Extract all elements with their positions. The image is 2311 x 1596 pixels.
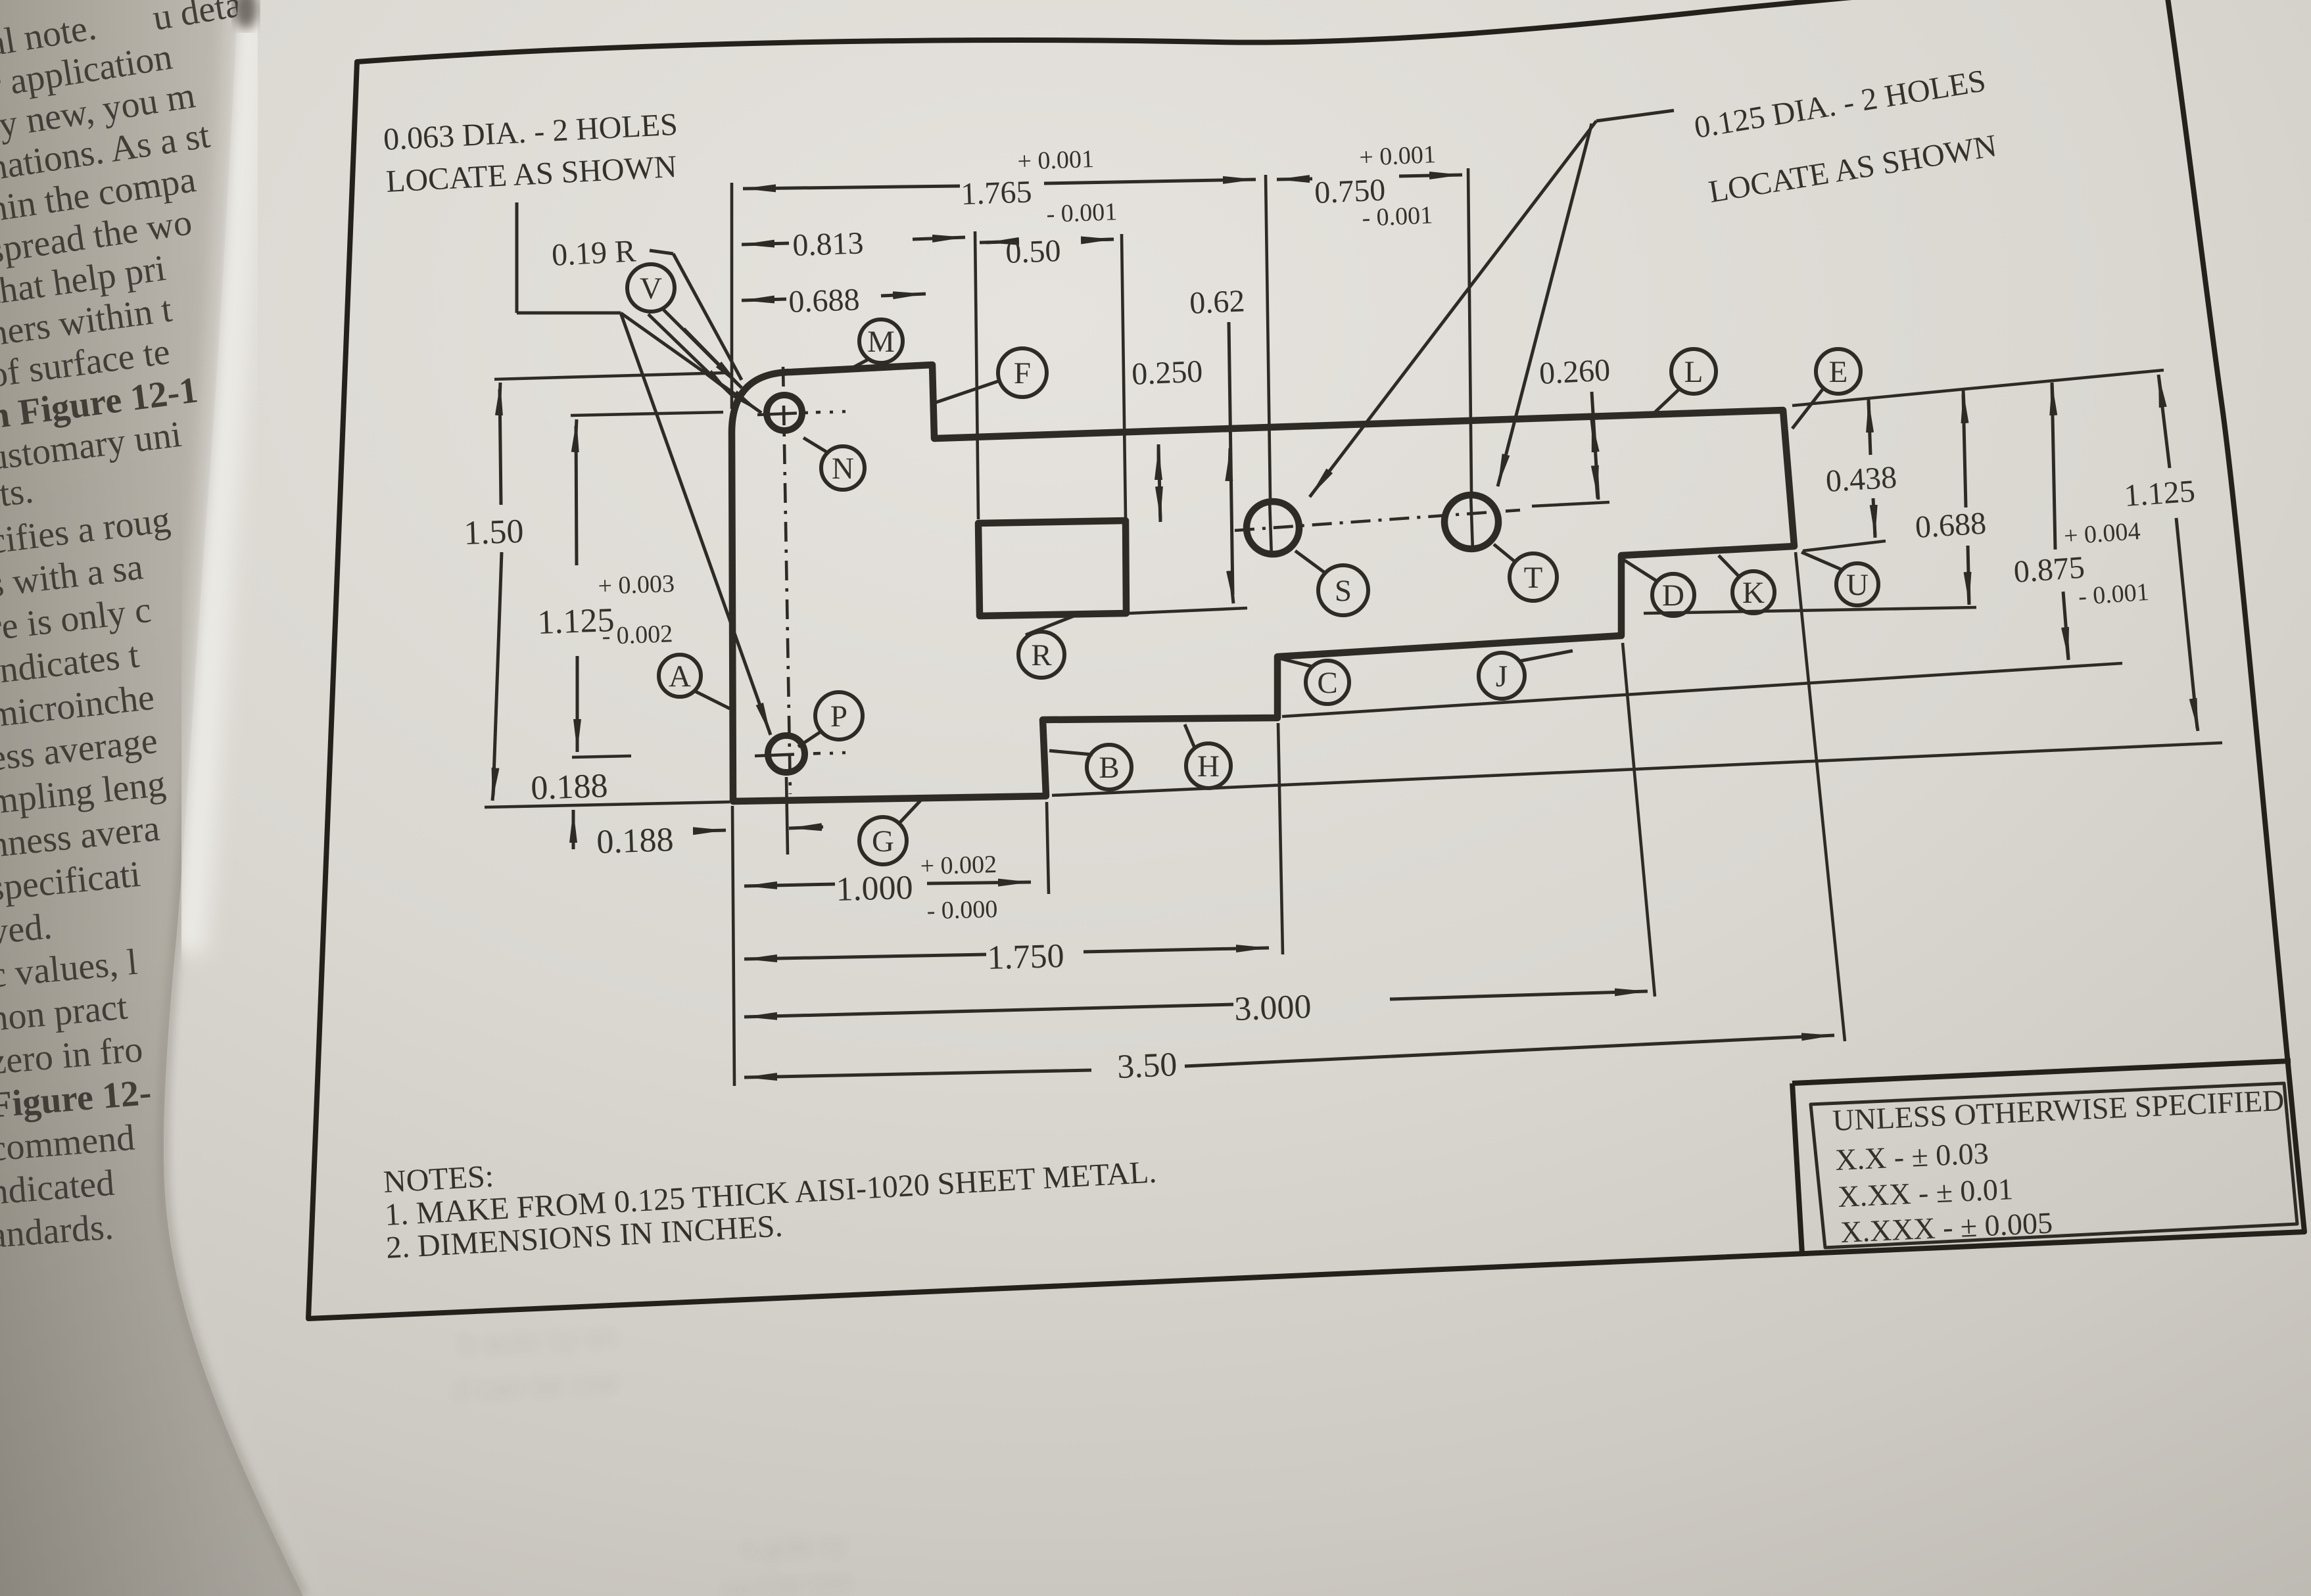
svg-text:- 0.001: - 0.001 bbox=[1046, 198, 1118, 228]
leader 0.125 note to both holes bbox=[1310, 110, 1674, 497]
balloon F leader bbox=[936, 381, 998, 402]
balloon R bbox=[1018, 632, 1064, 678]
dimension 1.750 bbox=[744, 937, 1269, 977]
ext rect-right / 0.50 (up) bbox=[1122, 234, 1126, 518]
leader 0.19 R to corner radius bbox=[551, 233, 742, 380]
svg-text:G: G bbox=[872, 824, 894, 858]
left book page (grey, partially visible) bbox=[0, 0, 303, 1596]
rectangular cutout bbox=[978, 521, 1126, 616]
small upper hole horizontal tick bbox=[757, 412, 821, 415]
svg-text:0.260: 0.260 bbox=[1538, 352, 1611, 391]
svg-text:+ 0.001: + 0.001 bbox=[1359, 141, 1437, 172]
svg-text:1.765: 1.765 bbox=[961, 174, 1033, 212]
balloon E bbox=[1816, 349, 1861, 394]
svg-text:S: S bbox=[1335, 574, 1352, 608]
dimension 1.000 +0.002/-0.000 bbox=[744, 851, 1031, 925]
ext rect-left / 0.813 (up) bbox=[975, 231, 978, 519]
balloon K leader bbox=[1719, 555, 1740, 577]
ext level4 to right (0.688) bbox=[1644, 607, 1976, 613]
ext top edge to left bbox=[494, 373, 728, 379]
dimension 0.250 bbox=[1131, 354, 1203, 522]
svg-text:ved.: ved. bbox=[0, 906, 54, 952]
svg-text:1.50: 1.50 bbox=[463, 513, 524, 552]
drawing frame border bbox=[308, 0, 2304, 1319]
balloon A leader bbox=[696, 692, 730, 709]
ext bottom plane to right bbox=[1052, 743, 2222, 795]
ext level3 tick right (0.438) bbox=[1803, 541, 1886, 551]
ext level2 to right bbox=[1792, 370, 2164, 406]
ext hole S2 center (up) bbox=[1468, 168, 1471, 492]
svg-text:+ 0.003: + 0.003 bbox=[598, 570, 675, 600]
ext 3.50 corner (down) bbox=[1796, 552, 1845, 1041]
balloon C bbox=[1306, 661, 1349, 704]
faint show-through ghost text bbox=[452, 1321, 852, 1596]
balloon J leader bbox=[1519, 651, 1573, 661]
balloon M leader bbox=[848, 359, 869, 370]
svg-text:L: L bbox=[1684, 355, 1703, 389]
ext bottom edge to left bbox=[485, 802, 730, 807]
balloon T leader bbox=[1494, 544, 1516, 563]
balloon U bbox=[1836, 563, 1878, 605]
svg-text:- 0.000: - 0.000 bbox=[926, 895, 998, 925]
balloon D bbox=[1652, 574, 1694, 616]
small lower hole horizontal tick bbox=[755, 753, 821, 756]
balloon P leader bbox=[798, 731, 822, 747]
ext 1.000 step (down) bbox=[1047, 802, 1049, 894]
svg-text:R: R bbox=[1031, 638, 1052, 672]
balloon T bbox=[1510, 553, 1557, 601]
balloon D leader bbox=[1624, 560, 1657, 581]
note 0.125 DIA - 2 HOLES bbox=[1692, 63, 1999, 210]
dimension 0.260 bbox=[1538, 352, 1611, 500]
balloon V bbox=[627, 264, 675, 312]
dimension 1.125 (right) bbox=[2123, 375, 2198, 731]
balloon J bbox=[1479, 653, 1525, 699]
hole small lower 0.063 dia bbox=[768, 736, 805, 772]
balloon B leader bbox=[1049, 751, 1093, 755]
svg-text:B: B bbox=[1099, 751, 1119, 785]
ext hole S1 center (up) bbox=[1266, 175, 1270, 498]
dimension 1.125 (left) +0.003/-0.002 bbox=[536, 419, 675, 752]
ext level5 to right (0.875) bbox=[1282, 663, 2122, 716]
small upper hole tick dots bbox=[830, 411, 846, 412]
balloon F bbox=[998, 348, 1047, 397]
page-edge crease shadow bbox=[164, 0, 303, 1596]
dimension 0.50 bbox=[980, 233, 1114, 270]
balloon K bbox=[1732, 571, 1775, 613]
svg-text:- 0.001: - 0.001 bbox=[2078, 578, 2150, 611]
hole S1 0.125 dia (left) bbox=[1247, 502, 1299, 554]
svg-text:C: C bbox=[1317, 666, 1337, 700]
svg-text:V: V bbox=[640, 271, 662, 306]
dimension 0.688 (right) bbox=[1914, 390, 1987, 605]
ext 1.750 step (down) bbox=[1278, 723, 1283, 954]
balloon R leader bbox=[1026, 615, 1076, 635]
dimension 0.62 bbox=[1189, 283, 1245, 603]
svg-text:1.125: 1.125 bbox=[2123, 474, 2196, 513]
dimension 3.000 bbox=[744, 988, 1648, 1028]
svg-text:0.188: 0.188 bbox=[530, 767, 608, 807]
svg-text:+ 0.001: + 0.001 bbox=[1017, 145, 1095, 176]
hole S1 vertical center tick bbox=[1270, 500, 1272, 557]
left page body text (clipped by page edge) bbox=[0, 0, 275, 1256]
ext small holes x (down) bbox=[786, 777, 788, 855]
dimension 0.875 +0.004/-0.001 bbox=[2013, 383, 2150, 660]
dimension 3.50 bbox=[744, 1035, 1834, 1086]
hole S2 0.125 dia (right) bbox=[1444, 495, 1498, 549]
balloon N bbox=[821, 446, 865, 490]
balloon S bbox=[1318, 565, 1368, 615]
balloon S leader bbox=[1295, 551, 1325, 573]
svg-text:T: T bbox=[1524, 561, 1543, 595]
svg-text:P: P bbox=[830, 699, 847, 734]
svg-text:- 0.002: - 0.002 bbox=[602, 620, 673, 650]
svg-text:0.438: 0.438 bbox=[1824, 459, 1897, 498]
ext lower hole centerline left bbox=[572, 756, 631, 757]
dimension 0.188 (vertical) bbox=[530, 767, 608, 849]
hole small upper 0.063 dia bbox=[767, 395, 802, 431]
svg-text:0.50: 0.50 bbox=[1005, 233, 1062, 270]
svg-text:1.750: 1.750 bbox=[987, 937, 1064, 977]
dimension 0.438 bbox=[1824, 400, 1897, 538]
balloon L leader bbox=[1653, 389, 1679, 414]
balloon C leader bbox=[1281, 659, 1312, 667]
tolerance box bbox=[1792, 1061, 2297, 1254]
balloon G leader bbox=[899, 801, 920, 823]
svg-text:0.250: 0.250 bbox=[1131, 354, 1203, 392]
dimension 0.188 (horizontal) bbox=[596, 821, 823, 861]
centerline through 0.125 holes (dash-dot) bbox=[1235, 510, 1520, 530]
svg-text:- 0.001: - 0.001 bbox=[1362, 201, 1433, 232]
curled sheet edge highlight bbox=[188, 0, 251, 953]
top-left dark gap between pages bbox=[234, 0, 258, 29]
svg-text:+ 0.002: + 0.002 bbox=[920, 851, 997, 880]
balloon G bbox=[859, 817, 907, 864]
svg-text:0.688: 0.688 bbox=[1914, 505, 1987, 544]
balloon B bbox=[1087, 745, 1132, 789]
balloon M bbox=[859, 319, 903, 363]
svg-text:X.X - ± 0.03: X.X - ± 0.03 bbox=[1834, 1136, 1989, 1177]
note 0.063 DIA - 2 HOLES bbox=[383, 107, 679, 199]
svg-text:E: E bbox=[1829, 355, 1848, 389]
balloon H bbox=[1186, 743, 1231, 788]
ext upper hole centerline left bbox=[571, 412, 723, 415]
svg-text:3.50: 3.50 bbox=[1116, 1046, 1178, 1086]
ext part left edge (up) bbox=[730, 183, 734, 409]
balloon U leader bbox=[1801, 552, 1841, 569]
balloon L bbox=[1671, 349, 1716, 394]
ext centerline tick (0.260) bbox=[1532, 502, 1609, 506]
ext part left edge (down) bbox=[732, 806, 734, 1086]
dimension 1.50 bbox=[463, 383, 524, 801]
svg-text:0.688: 0.688 bbox=[788, 282, 861, 319]
dimension 0.750 +0.001/-0.001 bbox=[1277, 141, 1462, 232]
svg-text:U: U bbox=[1846, 568, 1869, 602]
svg-text:K: K bbox=[1742, 576, 1765, 610]
svg-text:1.000: 1.000 bbox=[836, 869, 913, 908]
balloon H leader bbox=[1185, 724, 1195, 749]
balloon A bbox=[659, 655, 701, 697]
svg-text:its.: its. bbox=[0, 470, 36, 516]
svg-text:M: M bbox=[867, 325, 895, 359]
dimension 0.688 (left) bbox=[742, 282, 926, 319]
notes text block bbox=[383, 1154, 1158, 1265]
svg-text:0.62: 0.62 bbox=[1189, 283, 1245, 321]
svg-text:F: F bbox=[1014, 356, 1031, 390]
leader 0.063 note to both small holes bbox=[517, 202, 771, 735]
svg-text:0.813: 0.813 bbox=[792, 225, 865, 263]
svg-text:s gule sy: s gule sy bbox=[742, 1530, 847, 1564]
balloon N leader bbox=[803, 438, 827, 452]
small lower hole tick dots bbox=[830, 753, 846, 753]
part outline bbox=[732, 365, 1794, 801]
svg-text:A: A bbox=[669, 659, 691, 693]
svg-text:J: J bbox=[1496, 659, 1508, 693]
centerline vertical small holes (dash-dot) bbox=[783, 367, 790, 794]
svg-text:3.000: 3.000 bbox=[1233, 988, 1312, 1028]
ext rect-bottom right (0.62) bbox=[1129, 608, 1247, 613]
ext 3.000 step (down) bbox=[1623, 643, 1655, 997]
dimension 0.813 bbox=[742, 225, 965, 263]
svg-text:H: H bbox=[1197, 749, 1220, 784]
dimension 1.765 +0.001/-0.001 bbox=[743, 145, 1256, 228]
svg-text:+ 0.004: + 0.004 bbox=[2063, 517, 2141, 550]
svg-text:0.875: 0.875 bbox=[2013, 550, 2085, 590]
svg-text:N: N bbox=[832, 452, 854, 486]
left page bottom darkening bbox=[0, 0, 303, 1596]
svg-text:0.19 R: 0.19 R bbox=[551, 233, 637, 273]
hole S2 vertical center tick bbox=[1471, 494, 1473, 551]
curled sheet edge highlight lower bbox=[177, 953, 316, 1596]
balloon P bbox=[815, 692, 863, 739]
balloon V leader bbox=[663, 309, 739, 385]
svg-text:0.188: 0.188 bbox=[596, 821, 674, 861]
svg-text:D: D bbox=[1662, 578, 1684, 613]
balloon E leader bbox=[1792, 388, 1824, 429]
